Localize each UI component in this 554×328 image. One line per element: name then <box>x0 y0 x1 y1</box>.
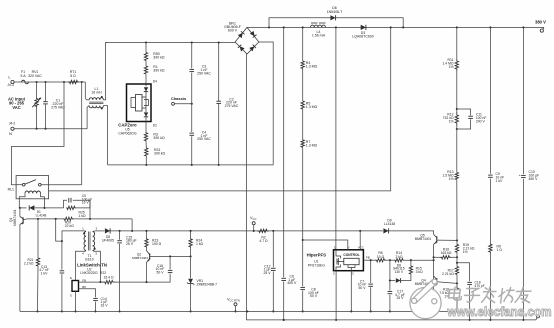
junction C18 branch <box>456 262 458 264</box>
resistor R13 <box>455 172 458 179</box>
wire R11-R12 <box>456 71 458 109</box>
wire VR1 bottom <box>190 284 192 312</box>
wire T1 pin5 down <box>93 251 101 283</box>
svg-text:BP: BP <box>82 285 86 289</box>
diode D2 body <box>144 112 148 116</box>
wire Vcc terminal <box>253 225 255 231</box>
svg-text:50 V: 50 V <box>310 294 318 298</box>
junction chassis <box>191 103 193 105</box>
inductor L1 top winding <box>89 98 103 100</box>
terminal J4-3 (L) <box>11 80 14 83</box>
junction C4 bottom <box>191 164 193 166</box>
diode BR1 top-right <box>250 31 255 36</box>
resistor R23 <box>145 238 148 248</box>
wire <box>302 109 304 140</box>
wire FB <box>79 281 103 283</box>
wire R16 left lead <box>434 256 440 258</box>
polarity dot T1 left <box>83 232 85 234</box>
svg-text:3 kΩ: 3 kΩ <box>416 270 424 274</box>
junction R16 right <box>456 256 458 258</box>
junction R21 top <box>37 218 39 220</box>
wire C7 bottom lead <box>370 287 372 311</box>
wire contact left stub <box>16 184 22 186</box>
wire <box>145 84 147 86</box>
svg-text:D: D <box>70 276 72 280</box>
wire C9 top lead <box>489 27 491 173</box>
svg-text:MMBT4401: MMBT4401 <box>13 209 17 226</box>
wire <box>302 27 304 61</box>
svg-text:2 kΩ: 2 kΩ <box>395 255 403 259</box>
wire Q5 emitter down <box>433 244 435 311</box>
wire <box>145 61 147 67</box>
junction D6 return <box>402 26 404 28</box>
wire N line <box>14 128 87 130</box>
wire C12 top lead <box>272 231 274 267</box>
junction C13 bottom <box>61 310 63 312</box>
resistor R6 <box>375 259 386 262</box>
svg-text:1%: 1% <box>463 250 468 254</box>
svg-text:1 kV: 1 kV <box>41 271 49 275</box>
wire RT1 bypass right <box>81 82 83 185</box>
wire T1 pin3 <box>93 230 96 233</box>
U1 control block <box>344 258 359 264</box>
svg-text:J4-2: J4-2 <box>9 121 16 125</box>
diode D3 <box>361 25 366 30</box>
svg-text:250 VAC: 250 VAC <box>197 137 211 141</box>
polarity dot T1 right <box>94 248 96 250</box>
svg-text:10 Ω: 10 Ω <box>377 255 385 259</box>
svg-text:1N5408-T: 1N5408-T <box>327 10 343 14</box>
wire R11 top lead <box>456 27 458 58</box>
wire tap to T1 pin1 node <box>56 219 62 241</box>
resistor R20 <box>63 217 74 220</box>
wire C3-C4 <box>191 73 193 132</box>
wire Q1 emitter to rail <box>19 225 21 312</box>
wire C1 bottom lead <box>45 104 47 128</box>
wire RV1 bottom lead <box>36 108 38 129</box>
wire R17-R18 <box>456 275 458 287</box>
wire R16 right lead <box>451 256 457 258</box>
wire <box>145 43 147 53</box>
terminal J4-2 (N) <box>11 127 14 130</box>
junction R23 top <box>145 230 147 232</box>
junction R24 top <box>190 230 192 232</box>
wire Q2 base line <box>150 255 191 257</box>
wire C5 right jog <box>73 200 90 219</box>
resistor R16 <box>440 256 451 259</box>
wire D6 left <box>269 18 330 28</box>
wire DC bus <box>247 26 544 28</box>
transistor Q2 body <box>147 251 150 255</box>
capacitor C9 <box>488 174 493 176</box>
svg-text:1 kΩ: 1 kΩ <box>196 242 204 246</box>
wire C16 top lead <box>169 256 171 269</box>
svg-text:1 Ω: 1 Ω <box>497 248 503 252</box>
svg-text:1.3 MΩ: 1.3 MΩ <box>306 105 318 109</box>
wire C17 top lead <box>389 281 391 291</box>
wire C6 line upper <box>283 27 285 277</box>
capacitor C2 <box>216 100 221 102</box>
junction C14 bottom <box>94 310 96 312</box>
junction boost out <box>390 26 392 28</box>
wire R25 right <box>76 200 90 208</box>
svg-text:S: S <box>333 272 335 276</box>
transistor Q1 body <box>20 217 23 219</box>
resistor R7 <box>301 140 304 148</box>
svg-text:D: D <box>334 245 336 249</box>
svg-text:16 mH: 16 mH <box>91 90 102 94</box>
junction C2 bottom <box>218 164 220 166</box>
junction R18 bottom <box>456 310 458 312</box>
junction U1 S bottom <box>335 319 337 321</box>
wire C4 lead <box>191 136 193 165</box>
wire C2 bottom lead <box>218 104 220 165</box>
wire C15 bottom lead <box>119 244 121 312</box>
wire <box>145 74 147 84</box>
junction coil right / D1 <box>43 207 45 209</box>
svg-text:50 V: 50 V <box>359 286 367 290</box>
relay coil <box>25 191 41 193</box>
svg-text:S: S <box>70 294 72 298</box>
junction T1 tap <box>55 218 57 220</box>
inductor L4 coil <box>311 25 326 27</box>
wire C18 bottom <box>469 286 471 320</box>
svg-text:UF4005: UF4005 <box>102 238 114 242</box>
wire <box>302 69 304 102</box>
junction R6/R14 <box>389 259 391 261</box>
wire Vcc rail right <box>360 230 383 232</box>
junction RV1 top <box>36 81 38 83</box>
svg-text:D4: D4 <box>153 79 157 83</box>
resistor R18 <box>455 286 458 298</box>
resistor R15 <box>409 266 412 275</box>
wire divider to V tap <box>302 147 304 240</box>
junction R14/R15 <box>410 259 412 261</box>
wire <box>456 109 458 112</box>
svg-text:5 Ω: 5 Ω <box>70 74 76 78</box>
transistor Q5 body <box>434 234 437 237</box>
svg-text:HiperPFS: HiperPFS <box>307 252 326 257</box>
junction base/R24 <box>190 255 192 257</box>
wire coil left leg <box>19 193 25 208</box>
wire relay to DC bus <box>49 27 391 191</box>
svg-text:16 V: 16 V <box>82 201 90 205</box>
junction U1 G bottom <box>350 310 352 312</box>
junction C17 bottom <box>389 310 391 312</box>
capacitor C8 <box>300 286 305 288</box>
svg-text:25 V: 25 V <box>264 271 272 275</box>
svg-text:470 pF: 470 pF <box>475 284 485 288</box>
wire node to C13 <box>61 241 63 270</box>
junction R12 top <box>456 108 458 110</box>
svg-text:390 kΩ: 390 kΩ <box>153 56 165 60</box>
wire C18 top <box>457 263 470 282</box>
diode D4 body <box>144 87 148 91</box>
wire Vcc RTN <box>235 306 237 312</box>
svg-text:RL1: RL1 <box>8 188 14 192</box>
capacitor C4 <box>189 132 194 134</box>
thermistor RT1 <box>68 80 79 83</box>
resistor R11 <box>455 59 458 72</box>
resistor R25 <box>66 206 76 209</box>
junction C8 bottom <box>302 310 304 312</box>
svg-text:1 kV: 1 kV <box>496 179 504 183</box>
capacitor C5 <box>68 198 70 203</box>
svg-text:PFS716EG: PFS716EG <box>308 264 326 268</box>
wire R14 right <box>404 259 434 261</box>
resistor R19 <box>455 244 458 253</box>
wire R22 right <box>116 281 147 283</box>
svg-text:CONTROL: CONTROL <box>343 253 359 257</box>
svg-text:1%: 1% <box>449 177 454 181</box>
wire D8 left leg <box>390 260 395 280</box>
junction Q5 base <box>456 239 458 241</box>
svg-text:www.elecfans.com: www.elecfans.com <box>447 304 552 319</box>
svg-text:1.3 MΩ: 1.3 MΩ <box>306 144 318 148</box>
svg-text:D2: D2 <box>153 124 157 128</box>
resistor R31 <box>145 148 148 157</box>
wire R21 top lead <box>37 219 39 258</box>
wire L1 to top bus <box>103 43 107 100</box>
resistor R5 <box>301 101 304 109</box>
resistor R22 body <box>102 280 116 283</box>
svg-text:600 V: 600 V <box>228 29 238 33</box>
wire RV1 top lead <box>36 82 38 98</box>
T1 secondary winding <box>93 232 95 251</box>
wire relay feed left <box>11 82 64 185</box>
wire R24 top lead <box>190 231 192 238</box>
svg-text:LNK302DG: LNK302DG <box>80 271 98 275</box>
transistor Q4 body <box>434 276 437 280</box>
junction C16 top <box>169 255 171 257</box>
junction D6 branch <box>268 26 270 28</box>
wire N elbow to L1 <box>87 106 89 129</box>
U1 mosfet symbol <box>336 259 338 265</box>
wire C15 top lead <box>119 231 121 240</box>
diode D5 <box>105 228 110 233</box>
wire R21 bottom lead <box>37 267 40 312</box>
IC U2 LinkSwitch-TN box <box>72 281 79 292</box>
svg-text:2.21 kΩ: 2.21 kΩ <box>442 272 454 276</box>
wire C11 top loop <box>457 109 471 115</box>
wire R13 to Q5 base <box>456 180 458 241</box>
wire C2 top lead <box>218 43 220 102</box>
junction VR1 bottom <box>190 310 192 312</box>
wire FB out <box>363 259 375 261</box>
zener VR1 body <box>188 279 193 284</box>
wire <box>456 126 458 129</box>
resistor R4 <box>301 61 304 69</box>
svg-text:50 V: 50 V <box>157 270 165 274</box>
wire C10 bottom lead <box>522 179 524 320</box>
svg-text:LQA08TC600: LQA08TC600 <box>352 35 373 39</box>
wire L line <box>14 81 85 83</box>
U5 internal block <box>136 95 143 112</box>
svg-text:Chassis: Chassis <box>171 96 187 101</box>
wire D6 right <box>336 18 404 28</box>
wire L elbow to L1 <box>85 82 89 100</box>
junction coil left / Q1 collector <box>19 207 21 209</box>
wire <box>386 259 394 261</box>
wire R19-R17 <box>456 253 458 267</box>
resistor R1 <box>144 66 147 74</box>
wire signal ground rail <box>20 310 458 312</box>
watermark chinese characters <box>448 287 462 300</box>
resistor R12 <box>455 112 458 126</box>
resistor R24 <box>189 238 192 248</box>
svg-text:VAC: VAC <box>12 105 20 110</box>
wire C6 line lower <box>283 282 285 320</box>
wire coil right leg <box>41 193 45 208</box>
wire C9-R9 <box>489 179 491 244</box>
capacitor C11 <box>468 115 473 117</box>
contact left <box>22 183 25 186</box>
junction R21 bottom <box>36 310 38 312</box>
svg-text:LL4148: LL4148 <box>384 222 395 226</box>
wire R12-R13 <box>456 129 458 172</box>
svg-text:22 kΩ: 22 kΩ <box>65 224 74 228</box>
diode BR1 bottom-right <box>249 46 254 51</box>
wire Q4 base line <box>437 282 457 284</box>
resistor R9 <box>489 243 492 253</box>
diode D1 <box>29 205 34 210</box>
junction U1 Vcc <box>359 230 361 232</box>
resistor R2 <box>257 229 269 232</box>
wire contact right to RT1 tap <box>41 184 82 186</box>
wire R24 to VR1 <box>190 248 192 278</box>
junction Q4 emitter <box>433 310 435 312</box>
terminal Vcc circle <box>252 222 255 225</box>
terminal output negative <box>537 315 540 318</box>
junction C1 bottom <box>44 128 46 130</box>
varistor RV1 body <box>35 98 38 108</box>
resistor R3 <box>144 132 147 142</box>
wire Q5 base line <box>437 239 457 241</box>
svg-text:N: N <box>9 131 12 136</box>
capacitor C10 <box>521 174 526 176</box>
junction C12 bottom <box>272 310 274 312</box>
svg-text:320 VAC: 320 VAC <box>28 74 42 78</box>
junction C12 top <box>272 230 274 232</box>
terminal chassis <box>172 102 175 105</box>
wire AC2 riser to bridge <box>259 42 273 165</box>
junction C15 bottom <box>119 310 121 312</box>
wire Q1 base stub <box>23 218 27 221</box>
junction D8/C17 <box>389 279 391 281</box>
svg-text:450 V: 450 V <box>529 177 539 181</box>
capacitor C7 <box>368 283 373 285</box>
relay RL1 box <box>16 176 49 199</box>
capacitor C17 <box>388 291 393 293</box>
contact right <box>39 183 42 186</box>
wire to D5 <box>95 230 104 232</box>
svg-text:LinkSwitch-TN: LinkSwitch-TN <box>77 263 107 268</box>
junction C2 top <box>218 41 220 43</box>
svg-text:380 V: 380 V <box>535 20 546 25</box>
junction R9 bottom <box>489 319 491 321</box>
wire Q2 emitter <box>146 263 148 283</box>
wire D8 right leg <box>401 275 411 281</box>
junction C6 top <box>283 26 285 28</box>
svg-text:275 VAC: 275 VAC <box>225 104 239 108</box>
diode D6 <box>330 15 335 20</box>
wire V pin to divider <box>303 240 348 250</box>
wire T1 pin4 to U2 D <box>76 251 87 281</box>
wire AC bus y42 <box>106 42 236 44</box>
junction C7 bottom <box>370 310 372 312</box>
diode D8 <box>396 278 401 283</box>
svg-text:1.3 MΩ: 1.3 MΩ <box>306 65 318 69</box>
svg-text:FB: FB <box>82 278 86 282</box>
junction C10 top <box>522 26 524 28</box>
junction drain node <box>335 26 337 28</box>
wire chassis <box>174 103 191 105</box>
svg-text:200 V: 200 V <box>476 120 486 124</box>
svg-text:ZMM5248B-7: ZMM5248B-7 <box>197 282 218 286</box>
svg-text:2.2 kΩ: 2.2 kΩ <box>24 261 34 265</box>
wire U1 Vcc pin <box>359 231 361 250</box>
svg-text:4.7 Ω: 4.7 Ω <box>259 239 268 243</box>
svg-text:EE10: EE10 <box>85 257 93 261</box>
wire BP to C14 <box>79 289 96 298</box>
svg-text:400 V: 400 V <box>287 281 297 285</box>
junction R11 top <box>456 26 458 28</box>
svg-text:1%: 1% <box>449 120 454 124</box>
wire AC2 line <box>108 164 274 166</box>
transformer T1 core <box>88 232 90 251</box>
wire U1 G pin down <box>350 271 352 312</box>
wire U1 S pin down <box>335 271 337 320</box>
svg-text:25 V: 25 V <box>126 242 134 246</box>
capacitor C12 <box>271 267 276 269</box>
junction pin5/FB <box>99 281 101 283</box>
junction U2 S <box>74 310 76 312</box>
wire Q1 collector <box>19 208 21 217</box>
wire C10 top lead <box>522 27 524 174</box>
svg-text:FB: FB <box>366 256 370 260</box>
junction RT1 left / relay tap <box>63 81 65 83</box>
svg-text:1%: 1% <box>449 65 454 69</box>
junction Vcc RTN <box>234 310 236 312</box>
svg-text:275 VAC: 275 VAC <box>51 105 65 109</box>
resistor R17 <box>455 267 458 275</box>
wire C16 bottom to R22 line <box>147 274 171 283</box>
capacitor C13 <box>60 270 65 272</box>
wire T1 pin1 to node <box>62 231 85 241</box>
wire D1 left <box>20 207 27 209</box>
capacitor C6 <box>281 277 286 279</box>
wire riser to Vcc rail <box>131 219 133 231</box>
junction rails <box>246 310 248 312</box>
svg-text:25 V: 25 V <box>397 296 405 300</box>
wire R15 top <box>410 260 412 265</box>
wire <box>146 248 148 251</box>
bridge rectifier BR1 <box>235 27 259 54</box>
svg-text:100 Ω: 100 Ω <box>152 242 162 246</box>
junction R31 bottom <box>145 164 147 166</box>
junction riser <box>131 230 133 232</box>
junction C10 bottom <box>522 319 524 321</box>
diode D9 <box>383 228 388 233</box>
svg-text:CAP062DG: CAP062DG <box>118 132 137 136</box>
resistor R14 <box>394 259 404 262</box>
wire Vcc to Q5 collector <box>389 231 434 235</box>
svg-text:5 A: 5 A <box>20 74 26 78</box>
junction Vcc terminal <box>253 230 255 232</box>
junction C5/R25 node <box>89 218 91 220</box>
junction C6 bottom <box>283 319 285 321</box>
wire bridge negative down <box>246 54 248 311</box>
